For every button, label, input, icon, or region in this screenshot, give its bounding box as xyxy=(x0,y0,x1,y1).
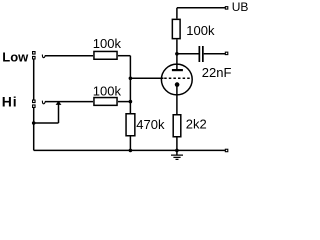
ground symbol bar 3 xyxy=(176,159,179,160)
resistor R 100k anode load body xyxy=(172,19,180,38)
ground symbol stem xyxy=(176,150,178,155)
terminal ground right xyxy=(225,149,227,151)
wire cathode down to Rk xyxy=(176,86,178,114)
capacitor C 22nF plate 1 xyxy=(199,46,201,62)
ground symbol bar 1 xyxy=(171,155,183,156)
ground symbol bar 2 xyxy=(173,157,180,158)
wire Rk bottom to ground bus xyxy=(176,137,178,150)
wire from top corner down to R1 xyxy=(176,8,178,19)
ground bus wire xyxy=(34,149,225,151)
wire UB top horizontal xyxy=(177,7,225,9)
svg-text:Hi: Hi xyxy=(2,93,18,109)
node bus junction dot 470k xyxy=(129,149,133,153)
jack switch arrow head xyxy=(56,101,62,105)
wire 470k bottom lead to bus xyxy=(129,136,131,150)
wire grid node to tube grid xyxy=(130,77,163,79)
svg-text:100k: 100k xyxy=(93,36,122,51)
wire anode node to capacitor xyxy=(177,53,199,55)
resistor R2 100k body xyxy=(94,51,117,59)
tube V1 cathode dot xyxy=(175,82,180,87)
tube V1 grid dashed line xyxy=(164,77,191,79)
jack Hi tip contact square xyxy=(33,100,36,103)
svg-text:Low: Low xyxy=(2,49,29,64)
resistor R3 100k body xyxy=(94,98,117,106)
wire R3 right to grid column xyxy=(118,101,130,103)
jack Low switch contact square xyxy=(33,56,36,59)
capacitor C 22nF plate 2 xyxy=(202,46,204,62)
jack Low tip contact square xyxy=(33,52,36,55)
svg-text:22nF: 22nF xyxy=(202,65,232,80)
wire R2 right to corner xyxy=(118,55,130,57)
terminal UB xyxy=(225,7,227,9)
wire arrow stem to left column xyxy=(34,122,59,124)
svg-text:2k2: 2k2 xyxy=(186,117,207,132)
jack Hi break contact v xyxy=(42,101,45,104)
wire 470k top lead xyxy=(129,102,131,113)
node ground junction dot xyxy=(175,149,179,153)
node anode junction dot xyxy=(175,52,179,56)
jack switch arrow stem xyxy=(58,104,60,123)
wire Low sleeve down to Hi tip xyxy=(33,59,35,99)
tube V1 envelope circle xyxy=(161,64,192,95)
resistor Rk 2k2 body xyxy=(173,115,181,137)
wire Low input to R2 xyxy=(45,55,93,57)
resistor Rg 470k body xyxy=(126,114,135,136)
wire Hi sleeve down to bus corner xyxy=(33,108,35,150)
svg-text:UB: UB xyxy=(232,0,249,14)
wire R1 bottom to anode node xyxy=(176,40,178,64)
wire Hi input to R3 xyxy=(45,101,93,103)
node grid junction dot xyxy=(129,77,133,81)
tube V1 anode lead inside envelope xyxy=(176,64,178,70)
svg-text:100k: 100k xyxy=(186,23,215,38)
svg-text:470k: 470k xyxy=(136,117,165,132)
tube V1 anode plate bar xyxy=(172,69,183,71)
node left column junction dot xyxy=(32,121,36,125)
terminal output xyxy=(225,52,227,54)
wire corner down to grid node xyxy=(129,56,131,102)
jack Low break contact v xyxy=(42,55,45,58)
svg-text:100k: 100k xyxy=(93,84,122,99)
wire capacitor to output terminal xyxy=(204,53,225,55)
node Hi junction dot xyxy=(129,100,133,104)
jack Hi switch contact square xyxy=(33,105,36,108)
